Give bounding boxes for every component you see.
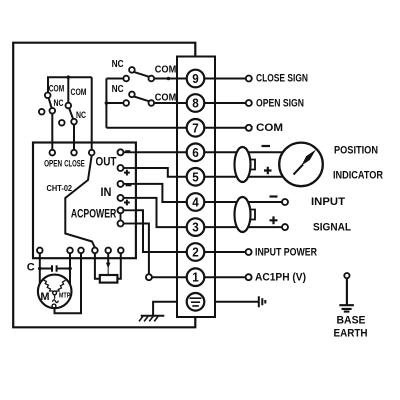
svg-text:NC: NC [76,110,86,121]
motor thermal protector squiggle [52,300,58,303]
wire motor center link [54,295,56,299]
svg-text:4: 4 [192,196,199,210]
svg-text:5: 5 [192,170,199,184]
svg-text:OUT: OUT [96,155,118,169]
svg-text:MTP: MTP [59,292,71,299]
switch SW-CLOSE pole contact [71,119,77,125]
svg-text:SIGNAL: SIGNAL [313,222,351,234]
svg-text:CHT-02: CHT-02 [47,184,73,193]
wire rail drop to switch B common [67,77,69,103]
wire terminal G to external earth stub [215,301,258,303]
terminal strip block [177,57,215,318]
terminal 1 [187,268,205,286]
label plus indicator [264,167,272,174]
svg-text:COM: COM [49,84,65,95]
wire to aux switch 2 pole [106,102,123,104]
terminal earth [187,293,205,311]
node junction aux switch 2 tap [105,101,109,105]
terminal 3 [187,218,205,236]
ground chassis symbol [139,316,164,322]
switch SW-OPEN pole contact [50,108,56,114]
wire circle terminal 1 [246,274,252,280]
wire B5 wiper arrow [107,253,109,263]
switch AUX2 pole contact [123,100,129,106]
terminal B6 under CHT-02 [118,248,124,254]
wire link between ACPOWER terminals [120,213,122,220]
wire B2 down to motor [69,253,71,284]
svg-text:CLOSE: CLOSE [64,158,85,168]
motor center contact [53,291,57,295]
svg-text:2: 2 [192,246,199,260]
controller CHT-02 box [33,143,136,259]
switch AUX2 NC contact [129,92,135,98]
terminal B5 under CHT-02 [105,248,111,254]
svg-text:NC: NC [112,58,124,70]
position indicator gauge U1 [279,143,323,187]
node connector circle on terminal 1 wire [146,274,152,280]
svg-text:AC1PH (V): AC1PH (V) [255,272,306,284]
switch SW-OPEN NO contact [39,109,45,115]
terminal 7 [187,119,205,137]
motor bottom contact [52,304,56,308]
terminal 6 [187,144,205,162]
switch AUX1 NC contact [129,67,135,73]
outer enclosure box [13,43,195,328]
wire ACPOWER-1 to terminal 2 [136,210,246,252]
wire OUT- to terminal 6 [136,151,284,153]
terminal ACPOWER-2 on CHT-02 side [118,221,124,227]
node junction on rail [67,75,71,79]
wire common rail of OPEN/CLOSE switches [48,77,92,92]
motor winding left zigzag [43,280,53,291]
svg-text:CLOSE SIGN: CLOSE SIGN [256,73,308,85]
wire AUX2 to terminal 8 [154,102,246,104]
terminal B2 under CHT-02 [67,248,73,254]
wire to aux switch 1 pole [106,78,123,80]
svg-text:OPEN: OPEN [44,158,62,168]
svg-text:6: 6 [192,146,199,160]
switch AUX2 lever [134,96,149,101]
terminal IN+ on CHT-02 side [118,195,124,201]
svg-text:INDICATOR: INDICATOR [333,170,383,182]
wire stub ACPOWER-2 [124,223,136,225]
svg-text:C: C [27,262,35,274]
switch SW-CLOSE NO contact [59,120,65,126]
terminal COM on CHT-02 top [89,150,95,156]
switch SW-CLOSE common contact [66,103,72,109]
wire SW-OPEN pole to OPEN terminal [51,114,53,150]
switch AUX2 output contact [149,100,155,106]
wire capacitor right lead [58,268,70,270]
svg-text:1: 1 [192,271,199,285]
svg-text:OPEN SIGN: OPEN SIGN [256,97,304,109]
wire circle input minus [282,199,288,205]
wire AUX1 to terminal 9 [154,78,246,80]
wire terminal 7 row to strip [106,127,245,129]
svg-text:NC: NC [112,83,124,95]
wire rail drop to CHT-02 third top terminal [91,77,93,150]
terminal OUT+ on CHT-02 side [118,165,124,171]
wire bus of aux switches down to terminal 7 row [105,79,107,128]
wire stub OUT+ [124,167,136,169]
wire capacitor left lead [40,268,51,270]
base earth electrode symbol [339,273,354,312]
node junction cap left [38,267,42,271]
terminal B3 under CHT-02 [78,248,84,254]
switch AUX1 lever [134,72,149,77]
terminal IN- on CHT-02 side [118,181,124,187]
svg-text:POSITION: POSITION [334,145,378,157]
svg-text:COM: COM [256,122,283,134]
wire ACPOWER-2 to connector and terminal 1 [136,224,149,275]
wire circle terminal 2 [246,249,252,255]
svg-text:INPUT: INPUT [311,196,345,208]
svg-text:COM: COM [155,64,177,76]
wire connector to terminal 1 [152,276,246,278]
svg-text:9: 9 [192,72,199,86]
terminal 4 [187,193,205,211]
label minus input [270,195,278,197]
switch SW-CLOSE lever [69,108,73,119]
wire circle terminal 7 signal [246,125,252,131]
wire terminal G to internal chassis ground [153,302,177,316]
svg-text:NC: NC [54,98,64,109]
earth symbol on wire end [259,296,266,307]
wire stub IN- [124,183,136,185]
wire stub IN+ [124,197,136,199]
svg-text:EARTH: EARTH [334,328,368,340]
terminal CLOSE on CHT-02 [71,150,77,156]
terminal OPEN on CHT-02 [50,150,56,156]
svg-text:INPUT POWER: INPUT POWER [255,246,317,258]
switch AUX1 pole contact [123,76,129,82]
svg-text:M: M [40,291,49,303]
capacitor C plate left [51,265,53,271]
switch SW-OPEN lever [49,98,52,108]
svg-text:BASE: BASE [337,315,366,327]
svg-text:COM: COM [155,92,177,104]
terminal B1 under CHT-02 [37,248,43,254]
label minus OUT- [125,150,130,152]
terminal 9 [187,70,205,88]
label plus OUT+ [124,170,130,176]
label plus IN+ [124,200,130,206]
wire B4 to resistor left [95,253,100,279]
wire stub ACPOWER-1 [124,209,136,211]
svg-text:IN: IN [101,185,112,199]
terminal 8 [187,94,205,112]
terminal ACPOWER-1 on CHT-02 side [118,207,124,213]
switch AUX1 output contact [149,76,155,82]
wire SW-CLOSE pole to CLOSE terminal [73,124,75,149]
motor winding right zigzag [56,280,66,291]
terminal 5 [187,168,205,186]
wire OUT+ to terminal 5 [136,168,284,177]
terminal OUT- on CHT-02 side [118,149,124,155]
wire B6 to resistor right [117,253,120,279]
wire B1 to capacitor and motor [39,253,41,283]
wire stub OUT- [124,151,136,153]
capacitor C plate right [56,265,58,271]
svg-text:7: 7 [192,121,199,135]
label minus indicator [262,145,271,147]
svg-text:ACPOWER: ACPOWER [71,209,117,221]
wire IN+ to terminal 3 [136,198,282,227]
label plus input [270,216,278,224]
wire B3 down to motor bottom [55,253,82,313]
svg-text:8: 8 [192,97,199,111]
wire circle terminal 9 signal [246,76,252,82]
wire circle input plus [282,224,288,230]
wire IN- to terminal 4 [136,184,282,202]
svg-text:COM: COM [71,87,87,98]
wire circle terminal 8 signal [246,100,252,106]
terminal 2 [187,243,205,261]
label minus IN- [126,184,132,186]
connector plug P2 [235,197,256,232]
connector plug P1 [235,147,256,182]
wire COM top terminal to bottom terminal 4 (diagonal) [65,155,95,247]
resistor R1 [100,275,118,283]
node junction on terminal 9 wire [167,77,171,81]
svg-text:3: 3 [192,221,199,235]
terminal B4 under CHT-02 [92,248,98,254]
switch SW-OPEN common contact [45,93,51,99]
node junction cap right [68,267,72,271]
motor M body [38,275,72,309]
